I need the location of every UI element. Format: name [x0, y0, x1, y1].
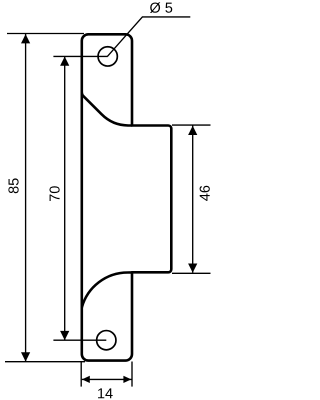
dimension line 46: [192, 126, 194, 273]
hole top: [98, 47, 117, 66]
extension line 46 bottom: [172, 272, 211, 274]
dimension line 14: [82, 378, 132, 380]
leader line for diameter label: [107, 17, 190, 57]
arrow 70 bottom: [60, 331, 69, 340]
label 70: [49, 186, 59, 201]
extension line 85 bottom: [5, 361, 85, 363]
top transition curve: [82, 93, 132, 126]
label diameter 5: [150, 2, 172, 13]
arrow 46 bottom: [188, 264, 197, 273]
label 46: [200, 186, 210, 201]
extension line 14 right: [131, 362, 133, 387]
extension line 46 top: [172, 124, 211, 126]
extension line 14 left: [80, 362, 82, 387]
arrow 46 top: [188, 126, 197, 135]
arrow 85 bottom: [21, 352, 30, 361]
dimension line 85: [25, 34, 27, 362]
arrow 70 top: [60, 57, 69, 66]
extension line 85 top: [7, 33, 84, 35]
arrow 14 left: [82, 376, 90, 383]
part outline: [82, 34, 172, 360]
bottom transition curve: [82, 272, 132, 307]
extension line 70 bottom: [53, 339, 106, 341]
label 14: [98, 388, 113, 398]
hole bottom: [97, 331, 116, 350]
extension line 70 top: [53, 55, 107, 57]
label 85: [8, 178, 18, 193]
arrow 14 right: [123, 376, 131, 383]
arrow 85 top: [21, 34, 30, 43]
dimension line 70: [64, 57, 66, 340]
